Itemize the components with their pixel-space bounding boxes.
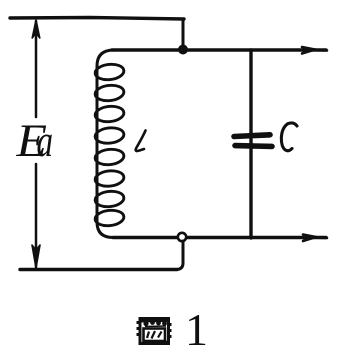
label L (inductor value) xyxy=(136,131,146,152)
wire riser from top wire down to tank top node xyxy=(182,19,185,50)
output arrow bottom xyxy=(303,235,327,242)
inductor L1 turn 6 xyxy=(94,169,124,187)
dimension line Ea upper segment with up arrow xyxy=(35,21,38,117)
wire tank bottom rail (coil bottom to output arrow) xyxy=(113,236,326,239)
node A junction dot (top of tank) xyxy=(178,45,188,55)
wire drop from bottom node to return rail xyxy=(176,241,183,270)
inductor L1 turn 3 xyxy=(94,105,124,123)
output arrow top xyxy=(302,47,327,54)
inductor L1 turn 2 xyxy=(94,84,124,102)
dimension line Ea lower segment with down arrow xyxy=(35,164,38,267)
inductor L1 turn 5 xyxy=(94,148,124,166)
caption stamp icon (Fig.) xyxy=(138,319,171,344)
inductor L1 turn 4 xyxy=(94,126,124,144)
label C (capacitor) xyxy=(281,123,297,151)
inductor L1 turn 8 xyxy=(94,209,124,227)
wire bottom return rail xyxy=(20,268,177,271)
inductor L1 turn 1 xyxy=(94,63,124,81)
capacitor C1 top plate xyxy=(234,135,270,137)
inductor L1 spine with top and bottom corner curves xyxy=(97,50,114,238)
node B junction loop (bottom of tank) xyxy=(178,233,186,241)
wire tank top rail (coil top to output arrow) xyxy=(112,48,326,51)
capacitor C1 bottom plate xyxy=(235,143,272,149)
svg-text:a: a xyxy=(37,115,54,167)
capacitor C1 branch wire (vertical) xyxy=(249,50,252,238)
wire top-left horizontal (Ea top to riser) xyxy=(10,18,184,20)
svg-text:1: 1 xyxy=(185,304,208,355)
inductor L1 turn 7 xyxy=(94,190,124,208)
